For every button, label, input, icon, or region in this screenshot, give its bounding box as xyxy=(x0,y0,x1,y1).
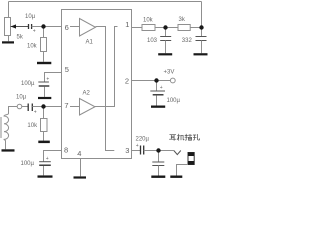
svg-text:A2: A2 xyxy=(83,91,91,97)
wire J6 down to C5 xyxy=(156,81,158,92)
wire C1 to node xyxy=(32,26,62,28)
wire A1 output down to pin3 xyxy=(96,27,115,151)
jack spring contact xyxy=(174,151,181,155)
wire node J1 down to R2 xyxy=(43,27,45,38)
wire pin8 to C4 xyxy=(44,151,62,162)
wire pot bottom xyxy=(8,36,10,42)
svg-text:+: + xyxy=(46,156,49,162)
ground C2 xyxy=(38,97,51,99)
wire pin2 to +3V xyxy=(132,80,171,82)
junction node J6 xyxy=(154,78,158,82)
svg-text:3k: 3k xyxy=(179,17,186,23)
svg-text:10k: 10k xyxy=(27,44,38,50)
wire terminal to C3 xyxy=(22,106,28,108)
ground R3 xyxy=(38,141,50,144)
ground C9 xyxy=(151,176,165,178)
wire top feedback xyxy=(9,2,202,28)
wire node J2 down to R3 xyxy=(43,107,45,119)
inductor L1 coil xyxy=(4,114,9,150)
terminal +3V circle xyxy=(170,78,175,83)
ground pin4 xyxy=(74,176,87,178)
wire C5 to ground xyxy=(156,95,158,105)
capacitor C7 332 xyxy=(196,37,207,41)
jack plug sleeve block xyxy=(188,161,194,165)
jack plug tip block xyxy=(188,153,194,157)
input terminal circle xyxy=(17,104,22,109)
label headphone jack (Chinese: 耳机插孔) xyxy=(169,134,199,140)
svg-text:10k: 10k xyxy=(27,123,38,129)
wire pin6 stub xyxy=(70,26,80,28)
wire R4 to R5 xyxy=(155,27,178,29)
svg-text:A1: A1 xyxy=(86,40,94,46)
wire C2 to ground xyxy=(44,87,46,97)
svg-text:103: 103 xyxy=(147,38,158,44)
svg-text:10µ: 10µ xyxy=(16,95,27,101)
svg-text:100µ: 100µ xyxy=(21,161,35,167)
ground C4 xyxy=(38,175,53,177)
wire C4 to ground xyxy=(43,166,45,175)
wire C3 to pin7 xyxy=(32,106,61,108)
svg-text:220µ: 220µ xyxy=(136,136,150,142)
wire terminal to coil xyxy=(9,107,18,114)
wire pin7 stub xyxy=(70,106,80,108)
resistor R3 10k xyxy=(41,119,48,132)
capacitor C8 220u plates xyxy=(141,146,144,155)
ground L1 xyxy=(2,149,15,151)
capacitor C2 100u xyxy=(38,81,49,83)
potentiometer RP 5k xyxy=(5,18,11,36)
wire C9 to ground xyxy=(158,166,160,176)
wire J4 down to C7 xyxy=(201,28,203,37)
junction node J2 xyxy=(41,104,45,108)
capacitor C5 100u xyxy=(150,90,165,92)
wire pin5 to C2 xyxy=(45,73,62,83)
svg-text:1: 1 xyxy=(125,20,129,29)
resistor R5 3k xyxy=(178,25,190,31)
svg-text:5: 5 xyxy=(65,65,69,74)
wire C7 to ground xyxy=(201,41,203,54)
wire A2 output up to pin1 xyxy=(95,27,118,107)
wire pin4 to ground xyxy=(80,159,82,177)
ground C5 xyxy=(151,106,165,108)
svg-text:100µ: 100µ xyxy=(167,98,181,104)
capacitor C4 100u xyxy=(39,161,51,163)
svg-text:6: 6 xyxy=(65,23,69,32)
resistor R4 10k xyxy=(142,25,155,31)
junction node J1 xyxy=(41,24,45,28)
wire pin1 to R4 xyxy=(132,27,143,29)
wire J3 down to C6 xyxy=(165,28,167,37)
capacitor C9 xyxy=(152,162,164,166)
IC U1 box xyxy=(62,10,132,159)
op-amp A1 xyxy=(80,19,96,37)
pot wiper arrow xyxy=(11,24,16,28)
ground R2 xyxy=(37,62,51,64)
svg-text:+: + xyxy=(33,29,36,35)
svg-text:+: + xyxy=(46,77,49,83)
op-amp A2 xyxy=(80,99,96,116)
inductor core line xyxy=(0,117,2,138)
svg-text:2: 2 xyxy=(125,76,129,85)
junction node J3 xyxy=(163,25,167,29)
svg-text:+: + xyxy=(136,143,139,149)
wire pin3 to C8 xyxy=(132,150,141,152)
svg-text:7: 7 xyxy=(64,101,68,110)
wire R5 to J4 xyxy=(190,27,201,29)
capacitor C6 103 xyxy=(160,37,171,41)
wire R3 bottom xyxy=(43,132,45,141)
svg-text:+3V: +3V xyxy=(164,69,175,75)
wire C8 to J5 xyxy=(144,150,174,152)
ground C7 xyxy=(194,53,208,55)
svg-text:8: 8 xyxy=(64,145,68,154)
capacitor C1 10u plates xyxy=(29,24,32,29)
wire jack to ground xyxy=(177,165,189,176)
wire R2 bottom xyxy=(43,52,45,62)
wire C6 to ground xyxy=(165,41,167,54)
ground pot xyxy=(2,41,14,43)
ground jack xyxy=(170,176,182,178)
ground C6 xyxy=(158,53,172,55)
svg-text:4: 4 xyxy=(77,149,81,158)
wire pot wiper xyxy=(11,26,29,28)
svg-text:10k: 10k xyxy=(143,17,154,23)
svg-text:3: 3 xyxy=(125,146,129,155)
jack plug body xyxy=(188,153,194,165)
svg-text:+: + xyxy=(34,110,37,116)
junction node J4 xyxy=(199,25,203,29)
svg-text:5k: 5k xyxy=(17,35,24,41)
svg-text:10µ: 10µ xyxy=(25,14,36,20)
junction node J5 xyxy=(156,148,160,152)
resistor R2 10k xyxy=(41,38,47,52)
capacitor C3 10u plates xyxy=(28,104,32,112)
svg-text:100µ: 100µ xyxy=(21,81,35,87)
wire J5 down to C9 xyxy=(158,151,160,163)
svg-text:332: 332 xyxy=(182,38,193,44)
svg-text:+: + xyxy=(160,85,163,91)
